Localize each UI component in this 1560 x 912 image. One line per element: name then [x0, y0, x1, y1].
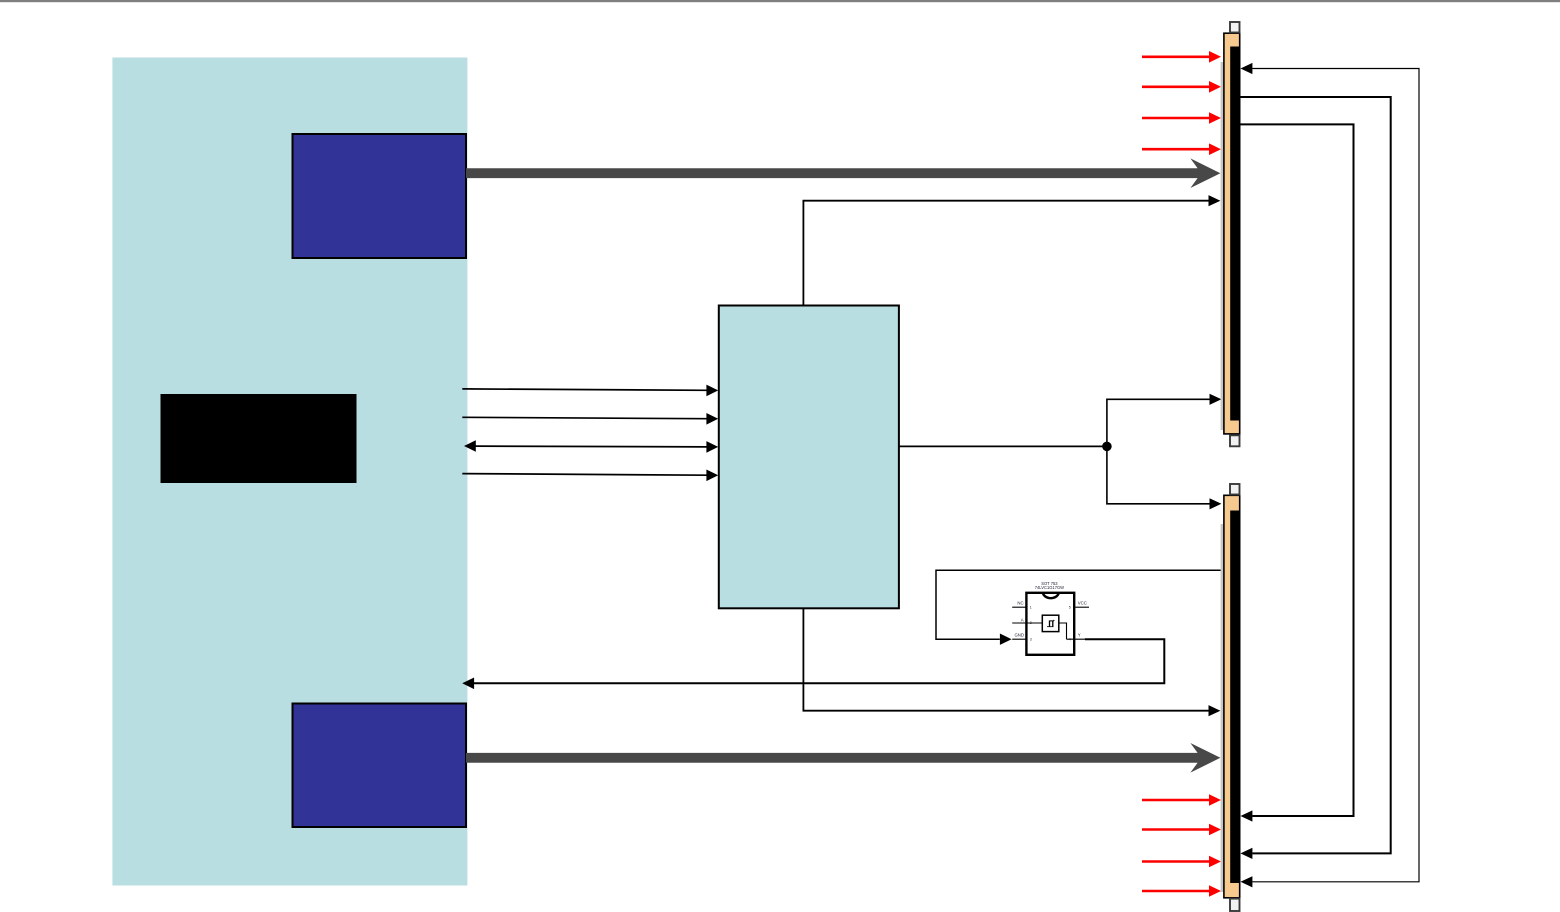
svg-text:1: 1	[1030, 605, 1032, 609]
IC U1 schmitt trigger box	[1042, 615, 1059, 631]
block: main board (large cyan)	[112, 58, 467, 886]
IC U1 pin 3 lead (GND)	[1012, 638, 1026, 640]
connector J2 (bottom) shadow strip	[1221, 524, 1224, 892]
red arrow 4 (top connector)	[1142, 143, 1221, 155]
IC U1 74LVC1G17 body	[1026, 593, 1074, 655]
IC U1 pin 5 lead (VCC)	[1075, 606, 1089, 608]
wire: bus line 4 board to controller	[462, 470, 718, 482]
red arrow 5 (bottom connector)	[1142, 794, 1221, 806]
connector J1 (top) body	[1224, 33, 1240, 434]
svg-text:5: 5	[1069, 605, 1071, 609]
svg-text:A: A	[1021, 618, 1024, 623]
gray bus arrow top	[466, 158, 1220, 188]
block: controller (mid cyan)	[719, 306, 899, 609]
wire: top connector to bottom connector (inner loop)	[1241, 124, 1354, 821]
red arrow 7 (bottom connector)	[1142, 856, 1221, 868]
block: top memory (dark blue)	[293, 134, 467, 258]
connector J2 (bottom) body	[1224, 495, 1240, 898]
connector J2 top tab	[1230, 484, 1240, 495]
wire: controller right to junction	[899, 445, 1107, 447]
svg-text:74LVC1G17GW: 74LVC1G17GW	[1035, 585, 1064, 590]
IC U1 internal output wire	[1059, 623, 1067, 639]
wire: bottom connector to inverter GND pin	[936, 570, 1223, 645]
wire: top connector to bottom connector (middle loop)	[1241, 97, 1391, 859]
red arrow 6 (bottom connector)	[1142, 824, 1221, 836]
red arrow 3 (top connector)	[1142, 112, 1221, 124]
gray bus arrow bottom	[466, 743, 1220, 773]
block: bottom memory (dark blue)	[293, 704, 467, 828]
red arrow 1 (top connector)	[1142, 51, 1221, 63]
connector J1 top tab	[1230, 22, 1240, 33]
connector J2 (bottom) contact stripe	[1230, 511, 1240, 884]
svg-text:GND: GND	[1014, 633, 1024, 638]
IC U1 pin 2 lead (A)	[1012, 622, 1042, 624]
IC U1 pin 4 lead (Y)	[1067, 638, 1090, 640]
connector J1 (top) contact stripe	[1230, 47, 1240, 421]
wire: inverter output back to board	[462, 639, 1164, 689]
connector J2 bottom tab	[1230, 899, 1240, 911]
svg-text:2: 2	[1030, 621, 1032, 625]
IC U1 pin 1 lead (NC)	[1012, 606, 1026, 608]
wire: bus line 2 board to controller	[462, 413, 718, 425]
wire: bus line 3 board/controller double arrow	[464, 440, 718, 453]
IC U1 hysteresis symbol	[1047, 620, 1054, 627]
wire: controller top to top connector	[803, 195, 1220, 305]
wire: controller bottom to bottom connector	[803, 608, 1220, 716]
svg-text:3: 3	[1030, 637, 1032, 641]
top border line	[0, 0, 1560, 2]
wire: bottom connector to top connector (outer loop)	[1241, 63, 1420, 888]
block: black module	[161, 394, 357, 483]
wire: junction to top connector	[1107, 394, 1222, 447]
svg-text:NC: NC	[1017, 601, 1023, 606]
IC U1 notch	[1043, 592, 1059, 598]
red arrow 8 (bottom connector)	[1142, 885, 1221, 897]
svg-text:4: 4	[1069, 637, 1071, 641]
red arrow 2 (top connector)	[1142, 81, 1221, 93]
svg-text:Y: Y	[1078, 633, 1081, 638]
connector J1 bottom tab	[1230, 435, 1240, 446]
svg-text:VCC: VCC	[1078, 601, 1087, 606]
wire: junction to bottom connector	[1107, 446, 1222, 509]
wire: bus line 1 board to controller	[462, 385, 718, 397]
connector J1 (top) shadow strip	[1221, 62, 1224, 430]
node junction dot	[1102, 442, 1112, 452]
